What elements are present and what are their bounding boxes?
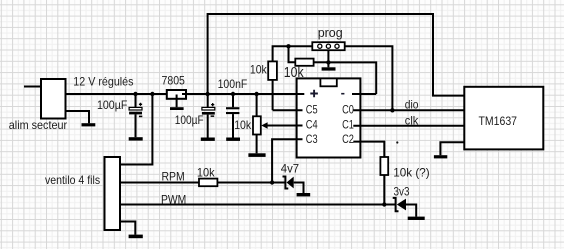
svg-text:C1: C1 [342,117,354,131]
node rail-C1 [133,92,137,96]
connector prog header [312,42,344,50]
svg-text:alim secteur: alim secteur [9,118,67,132]
svg-text:C2: C2 [342,132,354,146]
svg-text:TM1637: TM1637 [479,114,518,128]
svg-text:100µF: 100µF [97,98,127,112]
wire resistor to mid pin [314,61,329,63]
wire pin C3 [272,139,302,182]
svg-text:3v3: 3v3 [394,184,410,198]
wire pin C0 dio [353,109,464,111]
wire RPM [120,182,199,184]
ground 4v7 [297,193,311,196]
svg-text:100nF: 100nF [218,77,248,91]
svg-text:10k: 10k [234,118,252,132]
alim secteur box [41,79,66,119]
wire header left pin [273,46,313,61]
wire pin C2 [353,142,384,157]
capacitor 100nF [232,94,234,107]
ground cap output [201,138,215,141]
node dio-prog [390,108,394,112]
svg-text:RPM: RPM [162,170,185,184]
wire pin C4 wiper [267,125,303,127]
capacitor 100µF input [135,94,137,107]
svg-text:12 V régulés: 12 V régulés [73,75,133,89]
node prog-left [286,44,290,48]
node RPM-C3 [270,180,274,184]
IC U1 notch [320,78,336,86]
wire 7805 ground tab [176,95,178,108]
node rail-C2 [205,92,209,96]
svg-text:PWM: PWM [161,192,186,206]
svg-text:10k (?): 10k (?) [393,166,429,180]
node rail-fan [150,92,154,96]
label plus pin [310,90,318,98]
svg-text:prog: prog [318,25,343,40]
svg-text:clk: clk [405,114,419,128]
IC U1 microcontroller [297,78,361,157]
svg-text:4v7: 4v7 [281,162,300,176]
ground prog [322,67,336,70]
svg-text:C0: C0 [342,102,354,116]
regulator 7805 [167,90,186,99]
diode zener 3v3 [393,198,399,211]
resistor 10k horizontal [295,59,313,66]
wire plus pin stub [297,93,305,95]
ground alim secteur [82,123,96,126]
resistor 10k RPM [199,179,217,187]
wire 12V rail [66,93,305,95]
wire mid node to minus pin (outer) [328,62,376,94]
wire top supply to TM1637 [208,14,465,96]
potentiometer 10k [256,94,258,116]
ground cap input [129,137,143,140]
ground 7805 [170,107,184,110]
ground 3v3 [408,217,425,220]
fan ventilo box [105,157,121,230]
svg-text:dio: dio [405,98,419,112]
display TM1637 box [464,87,543,150]
svg-text:10k: 10k [250,63,268,77]
wire ventilo ground [120,222,135,235]
stray dot mark [396,141,398,143]
node rail-100nF [231,92,235,96]
wire 7805 output stub [182,93,187,95]
ground TM1637 [434,155,447,158]
capacitor 100µF output [207,94,209,107]
wire TM1637 ground [440,142,464,155]
wire header right pin to dio [345,46,393,110]
wire pin C5 [273,109,303,111]
wire fan supply [120,94,152,165]
wire PWM [120,204,395,206]
wire pullup to C5 [272,80,274,110]
wire mains input [24,86,41,88]
wire pin C1 clk [353,125,464,127]
node prog-mid [326,60,330,64]
svg-text:C4: C4 [306,117,318,131]
svg-text:C5: C5 [306,102,318,116]
wire node to horizontal resistor [289,46,296,62]
node rail-pot [254,92,258,96]
svg-text:C3: C3 [306,132,318,146]
resistor 10k pullup [268,61,277,80]
ground ventilo [129,235,143,239]
wire minus pin stub [352,93,376,95]
ground pot [248,153,265,157]
label minus pin [341,93,344,95]
node pulldown-PWM [382,202,386,206]
diode zener 4v7 [283,177,289,189]
ground 100nF [226,138,240,141]
resistor 10k pulldown [380,157,388,175]
svg-text:ventilo 4 fils: ventilo 4 fils [45,173,100,187]
wire header middle pin [327,50,329,67]
wire alim ground [66,111,90,123]
svg-text:100µF: 100µF [175,113,204,127]
svg-text:10k: 10k [197,165,216,179]
svg-text:7805: 7805 [162,74,186,88]
